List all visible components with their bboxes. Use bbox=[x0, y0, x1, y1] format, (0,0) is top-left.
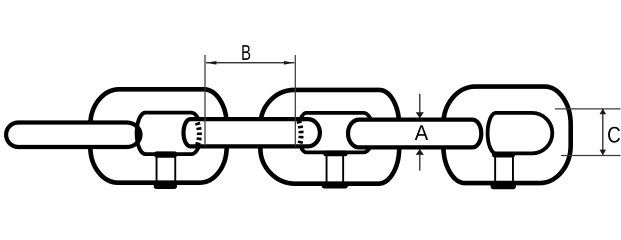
chain link L2 (middle, front view) outer ring bbox=[260, 90, 399, 184]
hidden-surface dots at bar E2 left end (inside L1) bbox=[197, 123, 199, 146]
dimension A lower arrow bbox=[416, 149, 424, 171]
chain link L2 inner opening bbox=[298, 113, 373, 152]
dimension C line with arrows bbox=[600, 109, 607, 156]
dimension B extension line (left) bbox=[204, 55, 206, 147]
edge-on link bar E3 (between L2 and L3) bbox=[348, 120, 481, 148]
edge-on link bar E1 (far left) bbox=[6, 123, 140, 148]
chain link L1 inner opening left cap (visible over bar E1) bbox=[137, 113, 146, 155]
chain link L1 (left, front view) outer ring bbox=[90, 89, 226, 182]
dimension B extension line (right) bbox=[294, 55, 296, 147]
chain link L3 bottom tab (edge-on link end) bbox=[491, 152, 516, 190]
dimension C extension line (bottom) bbox=[561, 155, 621, 157]
dimension B line with arrows bbox=[206, 61, 295, 65]
hidden-surface dots at bar E2 right end (inside L2) bbox=[299, 121, 301, 148]
chain link L1 inner opening bbox=[137, 113, 202, 155]
label C bbox=[608, 127, 620, 143]
chain link L2 bottom tab (edge-on link end) bbox=[322, 150, 348, 188]
chain link L1 bottom tab (edge-on link end) bbox=[154, 151, 177, 189]
edge-on link bar E2 (between L1 and L2) bbox=[184, 119, 320, 146]
dimension C extension line (top) bbox=[555, 108, 621, 110]
label A bbox=[415, 125, 428, 140]
dimension A upper arrow bbox=[416, 94, 424, 118]
chain link L3 inner opening bbox=[488, 113, 553, 153]
label B bbox=[242, 45, 250, 60]
chain link L3 (right, front view) outer ring bbox=[443, 87, 570, 184]
